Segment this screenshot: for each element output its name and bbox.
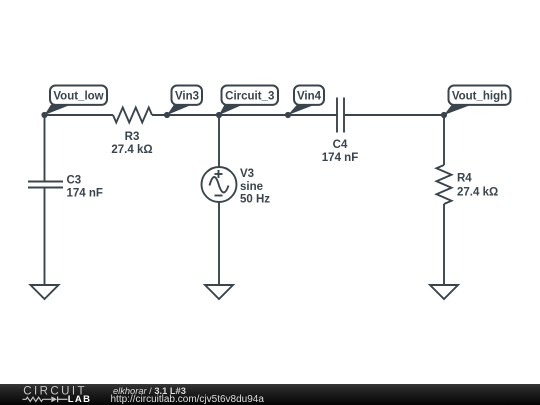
svg-text:R4: R4 [457, 173, 472, 185]
svg-text:50 Hz: 50 Hz [240, 194, 270, 206]
wire: horizontal right segment [344, 114, 444, 116]
footer bar [0, 384, 540, 405]
ground (right) [430, 285, 458, 299]
svg-text:Vin4: Vin4 [297, 91, 322, 103]
wire: horizontal middle segment [152, 114, 337, 116]
svg-text:C3: C3 [67, 174, 82, 186]
CircuitLab logo [0, 384, 100, 405]
wire: main horizontal left segment [45, 114, 114, 116]
svg-text:174 nF: 174 nF [67, 187, 103, 199]
footer line 1 [113, 387, 186, 396]
wire: V3 to ground [218, 202, 220, 285]
node Vin3 [164, 112, 170, 118]
capacitor C3 [28, 182, 63, 188]
ground (left) [31, 285, 59, 299]
svg-text:R3: R3 [125, 131, 140, 143]
node Vin4 [285, 112, 291, 118]
flag pointer Vin3 [167, 105, 192, 115]
node Circuit_3 [216, 112, 222, 118]
wire: R4 to ground [443, 204, 445, 285]
svg-text:174 nF: 174 nF [322, 152, 358, 164]
flag box Circuit_3 [222, 86, 279, 105]
voltage source V3 [202, 167, 237, 202]
svg-text:C4: C4 [333, 139, 348, 151]
svg-text:Vin3: Vin3 [175, 91, 199, 103]
svg-text:27.4 kΩ: 27.4 kΩ [457, 187, 498, 199]
capacitor C4 [337, 98, 344, 133]
svg-text:Vout_low: Vout_low [53, 91, 103, 103]
wire: C3 to ground [44, 188, 46, 286]
flag pointer Vin4 [288, 105, 315, 115]
svg-text:Vout_high: Vout_high [452, 91, 507, 103]
wire: vertical from Vout_low node to C3 [44, 115, 46, 182]
node Vout_high [441, 112, 447, 118]
flag pointer Circuit_3 [219, 105, 243, 115]
svg-text:27.4 kΩ: 27.4 kΩ [111, 144, 152, 156]
flag box Vout_high [449, 86, 511, 105]
svg-text:Circuit_3: Circuit_3 [225, 91, 274, 103]
node Vout_low [41, 112, 47, 118]
wire: Circuit_3 node down to V3 [218, 115, 220, 167]
wire: Vout_high node down to R4 [443, 115, 445, 165]
flag box Vin4 [294, 86, 324, 105]
ground (middle) [205, 285, 233, 299]
flag pointer Vout_low [45, 105, 72, 115]
flag box Vout_low [50, 86, 107, 105]
svg-text:LAB: LAB [68, 394, 92, 405]
svg-text:V3: V3 [240, 168, 254, 180]
svg-text:sine: sine [240, 181, 263, 193]
resistor R3 [113, 108, 152, 123]
logo resistor squiggle [23, 397, 52, 401]
flag pointer Vout_high [444, 105, 472, 116]
flag box Vin3 [172, 86, 203, 105]
footer line 2 [111, 395, 264, 405]
logo diode [51, 396, 57, 402]
resistor R4 [437, 165, 452, 204]
